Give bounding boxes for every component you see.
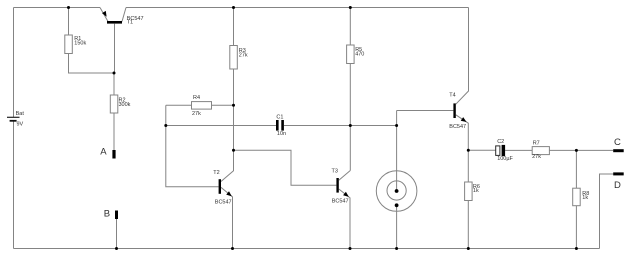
svg-text:BC547: BC547 — [449, 124, 466, 130]
svg-text:1k: 1k — [582, 195, 588, 201]
svg-text:C2: C2 — [497, 139, 504, 145]
svg-text:Bat: Bat — [16, 111, 25, 117]
svg-text:D: D — [614, 180, 621, 191]
svg-text:27k: 27k — [192, 111, 201, 117]
svg-text:T1: T1 — [127, 20, 133, 26]
svg-text:T4: T4 — [449, 93, 455, 99]
svg-text:9V: 9V — [17, 121, 24, 127]
svg-text:C: C — [614, 137, 621, 148]
svg-text:T3: T3 — [332, 169, 338, 175]
svg-text:B: B — [104, 208, 110, 219]
svg-text:A: A — [100, 146, 107, 157]
svg-text:C1: C1 — [276, 114, 283, 120]
svg-text:470: 470 — [355, 52, 364, 58]
svg-text:BC547: BC547 — [332, 198, 349, 204]
svg-text:1k: 1k — [473, 188, 479, 194]
svg-text:300k: 300k — [119, 102, 131, 108]
svg-text:R7: R7 — [533, 140, 540, 146]
svg-text:10n: 10n — [277, 131, 286, 137]
svg-text:27k: 27k — [239, 53, 248, 59]
svg-text:150k: 150k — [74, 40, 86, 46]
svg-text:T2: T2 — [213, 170, 219, 176]
svg-text:R4: R4 — [193, 95, 200, 101]
svg-text:100µF: 100µF — [497, 156, 513, 162]
svg-text:27k: 27k — [532, 154, 541, 160]
svg-text:BC547: BC547 — [215, 199, 232, 205]
